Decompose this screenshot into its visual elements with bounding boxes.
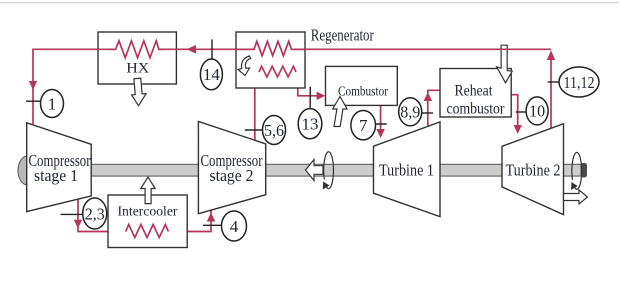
svg-text:Turbine 1: Turbine 1 (379, 161, 434, 180)
regenerator curved hook arrow (238, 56, 251, 76)
shaft segment comp1-comp2 (89, 164, 200, 176)
node 13 (298, 87, 322, 139)
wire: turbine2 exit up (11,12) (550, 58, 552, 128)
arrow into HX (pointing left) (187, 45, 197, 54)
node 4 (203, 211, 247, 241)
node 10 (516, 97, 548, 125)
arrow into turbine 2 (514, 125, 522, 134)
wire: reheat combustor exit down into turbine 2 (10) (511, 95, 518, 126)
svg-text:combustor: combustor (447, 100, 506, 117)
svg-text:Turbine 2: Turbine 2 (506, 161, 561, 180)
svg-text:stage 1: stage 1 (34, 166, 78, 185)
arrow down to compressor 1 inlet (29, 81, 37, 90)
combustor fuel-in hollow arrow (333, 97, 347, 127)
arrow up into reheat combustor (424, 92, 432, 101)
arrow into combustor inlet (317, 92, 326, 100)
node 2,3 (61, 198, 107, 229)
svg-text:11,12: 11,12 (564, 73, 595, 92)
svg-text:14: 14 (203, 65, 221, 84)
HX heat-out hollow arrow (130, 78, 147, 106)
hollow left arrow on shaft (work input) (306, 160, 324, 181)
regenerator hot-side zigzag (236, 41, 305, 55)
rotation arrow on shaft comp2-turbine1 (323, 152, 334, 190)
HX box (98, 32, 176, 84)
reheat combustor box (440, 69, 511, 118)
top hairline (0, 2, 619, 3)
svg-text:HX: HX (126, 61, 149, 77)
reheat fuel-in hollow arrow (497, 45, 513, 83)
svg-text:7: 7 (359, 116, 368, 135)
svg-text:2,3: 2,3 (85, 204, 105, 223)
rotation arrow on output shaft (571, 152, 582, 190)
arrow up at 11,12 line top (547, 50, 555, 60)
turbine 1 (374, 122, 441, 217)
wire: exhaust top line from 11,12 to regenerator to HX to state 1 (33, 49, 551, 125)
node 11,12 (548, 67, 599, 97)
compressor stage 2 (198, 121, 265, 213)
regenerator cold-side zigzag (259, 66, 296, 77)
combustor box (326, 66, 398, 105)
wire: turbine1 exit up to reheat combustor (8,9) (428, 90, 440, 125)
arrow into turbine 1 (376, 129, 384, 138)
intercooler box (108, 195, 187, 248)
HX heat-exchanger zigzag (110, 41, 165, 58)
shaft segment turbine2 output (561, 164, 586, 176)
svg-text:Combustor: Combustor (338, 85, 388, 100)
intercooler heat-out hollow arrow (141, 177, 156, 204)
node 7 (351, 111, 387, 140)
arrow up into compressor 2 (state 4) (207, 213, 215, 222)
shaft segment turbine1-turbine2 (438, 164, 504, 176)
node 1 (26, 90, 64, 118)
shaft end cap (581, 163, 588, 178)
svg-text:8,9: 8,9 (400, 103, 420, 122)
node 8,9 (399, 98, 433, 126)
turbine 2 (502, 124, 564, 215)
hollow right arrow (net work out) (564, 190, 588, 204)
svg-text:Intercooler: Intercooler (118, 205, 178, 220)
shaft segment comp2-turbine1 (264, 164, 375, 176)
intercooler zigzag (126, 225, 169, 238)
node 5,6 (245, 116, 286, 145)
wire: compressor1 exit to intercooler (2,3) (78, 199, 211, 231)
wire: compressor2 exit (5,6) to regenerator cold side to combustor (13) (255, 72, 317, 141)
svg-text:13: 13 (302, 115, 319, 134)
svg-text:1: 1 (48, 94, 57, 113)
arrow down at 2,3 (74, 220, 82, 229)
svg-text:5,6: 5,6 (264, 121, 284, 140)
svg-text:10: 10 (529, 102, 545, 121)
regenerator box (236, 32, 305, 88)
label Regenerator (311, 26, 374, 45)
svg-text:4: 4 (230, 217, 239, 236)
svg-text:Reheat: Reheat (455, 83, 493, 100)
shaft end bearing comp1 (18, 156, 37, 185)
wire: combustor exit down into turbine 1 (7) (380, 106, 382, 131)
node 14 (200, 39, 222, 89)
compressor stage 1 (27, 123, 92, 212)
svg-text:stage 2: stage 2 (210, 166, 254, 185)
svg-text:Regenerator: Regenerator (311, 26, 374, 45)
